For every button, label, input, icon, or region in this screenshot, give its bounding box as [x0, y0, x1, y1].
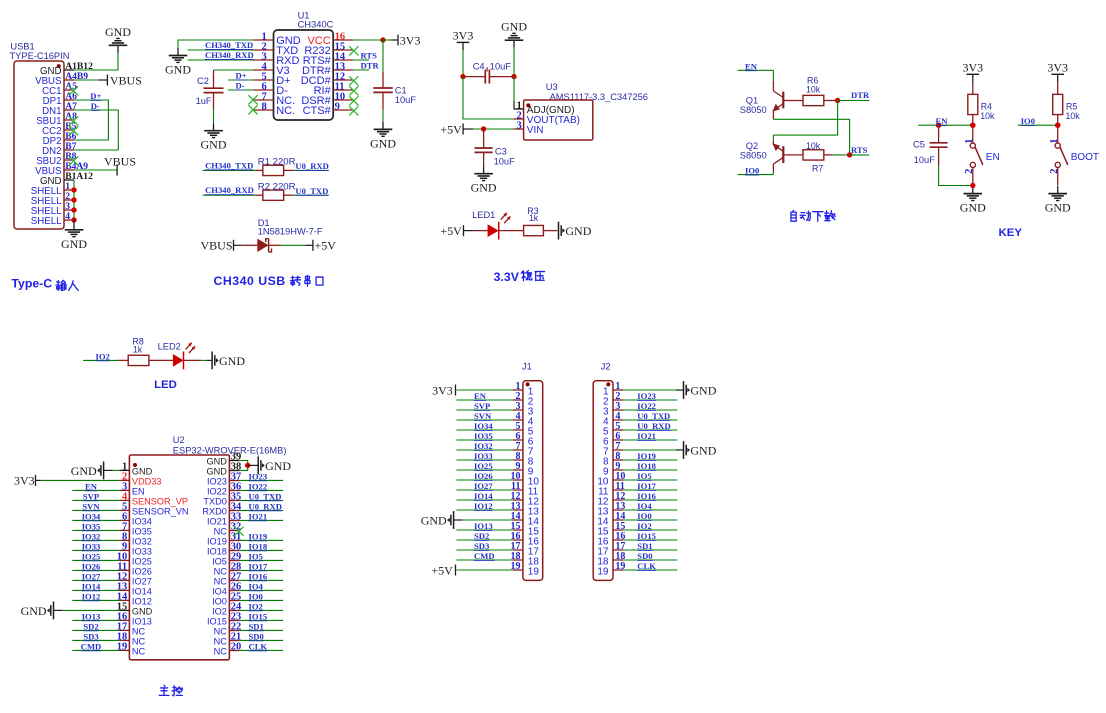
svg-text:USB1: USB1 — [10, 41, 34, 51]
svg-text:8: 8 — [261, 101, 266, 112]
svg-text:GND: GND — [421, 513, 447, 527]
svg-text:NC.: NC. — [276, 105, 295, 117]
svg-text:C2: C2 — [197, 76, 209, 86]
svg-text:C1: C1 — [395, 85, 407, 95]
svg-text:U0_RXD: U0_RXD — [249, 501, 282, 511]
svg-text:GND: GND — [132, 606, 153, 616]
svg-text:1: 1 — [964, 139, 975, 144]
svg-text:D+: D+ — [90, 91, 101, 101]
svg-text:IO33: IO33 — [474, 451, 493, 461]
svg-text:SVN: SVN — [474, 411, 492, 421]
svg-text:1k: 1k — [133, 344, 143, 354]
svg-text:GND: GND — [21, 604, 47, 618]
svg-text:R2 220R: R2 220R — [258, 182, 296, 193]
svg-text:9: 9 — [335, 101, 340, 112]
svg-text:IO19: IO19 — [637, 451, 656, 461]
svg-text:NC: NC — [132, 636, 146, 646]
svg-text:10uF: 10uF — [490, 61, 512, 71]
svg-text:VBUS: VBUS — [200, 239, 232, 253]
svg-text:LED: LED — [154, 379, 177, 391]
svg-text:GND: GND — [960, 201, 986, 215]
svg-text:CTS#: CTS# — [303, 105, 332, 117]
svg-text:CMD: CMD — [81, 641, 102, 651]
svg-text:Type-C: Type-C — [11, 276, 52, 290]
svg-text:U0_RXD: U0_RXD — [637, 421, 670, 431]
svg-text:NC: NC — [214, 646, 228, 656]
svg-text:D-: D- — [91, 101, 100, 111]
svg-text:TYPE-C16PIN: TYPE-C16PIN — [10, 51, 70, 61]
svg-text:TXD0: TXD0 — [203, 496, 227, 506]
svg-text:10k: 10k — [1066, 111, 1081, 121]
svg-text:GND: GND — [132, 466, 153, 476]
svg-text:GND: GND — [370, 136, 396, 150]
svg-text:ESP32-WROVER-E(16MB): ESP32-WROVER-E(16MB) — [173, 446, 287, 456]
svg-text:BOOT: BOOT — [1071, 152, 1099, 163]
svg-text:SENSOR_VP: SENSOR_VP — [132, 496, 188, 506]
svg-text:+5V: +5V — [440, 224, 462, 238]
svg-text:IO0: IO0 — [249, 591, 263, 601]
svg-text:3: 3 — [517, 120, 522, 131]
svg-text:GND: GND — [206, 456, 227, 466]
svg-text:IO27: IO27 — [132, 576, 152, 586]
svg-text:IO4: IO4 — [637, 501, 652, 511]
svg-text:U0_TXD: U0_TXD — [295, 186, 328, 196]
svg-text:19: 19 — [597, 567, 609, 578]
svg-text:1: 1 — [1049, 139, 1060, 144]
svg-text:DTR: DTR — [851, 90, 870, 100]
svg-text:RTS: RTS — [851, 145, 868, 155]
svg-text:SD0: SD0 — [637, 551, 652, 561]
svg-text:+5V: +5V — [431, 563, 453, 577]
svg-text:SD1: SD1 — [249, 621, 264, 631]
svg-text:IO14: IO14 — [82, 581, 101, 591]
svg-text:CH340_TXD: CH340_TXD — [205, 40, 253, 50]
svg-text:VBUS: VBUS — [104, 155, 136, 169]
svg-text:+5V: +5V — [315, 239, 337, 253]
svg-text:GND: GND — [105, 25, 131, 39]
svg-text:CH340 USB: CH340 USB — [214, 274, 286, 288]
svg-text:IO0: IO0 — [745, 166, 759, 176]
svg-text:CH340_TXD: CH340_TXD — [205, 160, 253, 170]
svg-text:IO0: IO0 — [1021, 116, 1035, 126]
svg-text:IO33: IO33 — [82, 541, 101, 551]
svg-text:U3: U3 — [546, 82, 558, 92]
svg-text:CH340_RXD: CH340_RXD — [205, 50, 254, 60]
svg-text:GND: GND — [471, 181, 497, 195]
svg-text:RTS: RTS — [361, 51, 378, 61]
svg-text:IO17: IO17 — [637, 481, 656, 491]
svg-text:1N5819HW-7-F: 1N5819HW-7-F — [258, 226, 323, 236]
svg-text:R7: R7 — [812, 164, 823, 174]
svg-text:IO26: IO26 — [474, 471, 493, 481]
svg-text:IO12: IO12 — [132, 596, 152, 606]
svg-text:IO32: IO32 — [132, 536, 152, 546]
svg-text:19: 19 — [528, 567, 540, 578]
svg-text:IO12: IO12 — [82, 591, 101, 601]
svg-text:CLK: CLK — [637, 561, 656, 571]
svg-text:C5: C5 — [913, 139, 925, 149]
svg-text:IO25: IO25 — [132, 556, 152, 566]
svg-text:SHELL: SHELL — [31, 216, 62, 227]
svg-text:GND: GND — [201, 138, 227, 152]
svg-text:IO26: IO26 — [82, 561, 101, 571]
svg-text:U0_TXD: U0_TXD — [637, 411, 670, 421]
svg-text:U0_TXD: U0_TXD — [249, 491, 282, 501]
svg-text:R1 220R: R1 220R — [258, 157, 296, 168]
svg-text:CH340C: CH340C — [298, 19, 334, 29]
svg-text:C3: C3 — [495, 146, 507, 156]
svg-text:CLK: CLK — [249, 641, 268, 651]
svg-text:GND: GND — [690, 383, 716, 397]
svg-text:SD2: SD2 — [474, 531, 489, 541]
svg-text:U2: U2 — [173, 435, 185, 445]
svg-text:NC: NC — [214, 576, 228, 586]
svg-text:NC: NC — [132, 646, 146, 656]
svg-text:3V3: 3V3 — [453, 28, 474, 42]
svg-text:U0_RXD: U0_RXD — [295, 161, 328, 171]
svg-text:IO13: IO13 — [82, 611, 101, 621]
svg-text:3V3: 3V3 — [14, 474, 35, 488]
svg-text:EN: EN — [745, 61, 758, 71]
svg-text:1k: 1k — [529, 213, 539, 223]
svg-text:EN: EN — [85, 481, 98, 491]
svg-text:NC: NC — [214, 566, 228, 576]
svg-text:IO2: IO2 — [212, 606, 227, 616]
svg-text:GND: GND — [501, 20, 527, 34]
svg-text:IO13: IO13 — [132, 616, 152, 626]
svg-text:S8050: S8050 — [740, 151, 767, 161]
svg-text:IO13: IO13 — [474, 521, 493, 531]
svg-text:IO25: IO25 — [474, 461, 493, 471]
svg-text:VBUS: VBUS — [110, 73, 142, 87]
svg-text:S8050: S8050 — [740, 105, 767, 115]
svg-text:RXD0: RXD0 — [202, 506, 227, 516]
svg-text:DTR: DTR — [361, 61, 380, 71]
svg-text:IO5: IO5 — [212, 556, 227, 566]
svg-text:+5V: +5V — [440, 122, 462, 136]
svg-text:IO16: IO16 — [249, 571, 268, 581]
svg-text:IO32: IO32 — [82, 531, 101, 541]
svg-text:2: 2 — [964, 169, 975, 174]
svg-text:IO34: IO34 — [132, 516, 152, 526]
svg-text:IO5: IO5 — [637, 471, 651, 481]
svg-text:IO22: IO22 — [249, 481, 268, 491]
svg-text:IO18: IO18 — [207, 546, 227, 556]
svg-text:IO21: IO21 — [637, 431, 656, 441]
svg-text:J2: J2 — [601, 362, 611, 372]
svg-text:10uF: 10uF — [914, 155, 936, 165]
svg-text:SD0: SD0 — [249, 631, 264, 641]
svg-text:IO12: IO12 — [474, 501, 493, 511]
svg-text:IO27: IO27 — [474, 481, 493, 491]
svg-text:IO23: IO23 — [637, 391, 656, 401]
svg-text:EN: EN — [986, 152, 1000, 163]
svg-text:IO22: IO22 — [637, 401, 656, 411]
svg-text:IO23: IO23 — [207, 476, 227, 486]
svg-text:D-: D- — [236, 81, 245, 91]
svg-text:IO34: IO34 — [474, 421, 493, 431]
svg-text:SVP: SVP — [474, 401, 490, 411]
svg-text:IO15: IO15 — [207, 616, 227, 626]
svg-text:CH340_RXD: CH340_RXD — [205, 185, 254, 195]
svg-text:IO19: IO19 — [207, 536, 227, 546]
svg-text:IO32: IO32 — [474, 441, 493, 451]
svg-text:IO18: IO18 — [637, 461, 656, 471]
svg-text:GND: GND — [1045, 201, 1071, 215]
svg-text:IO0: IO0 — [212, 596, 227, 606]
svg-text:IO15: IO15 — [637, 531, 656, 541]
svg-text:10uF: 10uF — [494, 157, 516, 167]
svg-text:GND: GND — [265, 459, 291, 473]
svg-text:3V3: 3V3 — [1047, 60, 1068, 74]
svg-text:VIN: VIN — [527, 125, 544, 136]
svg-text:IO14: IO14 — [474, 491, 493, 501]
svg-text:Q2: Q2 — [746, 141, 758, 151]
svg-text:D+: D+ — [236, 71, 247, 81]
svg-text:IO4: IO4 — [212, 586, 227, 596]
svg-text:IO25: IO25 — [82, 551, 101, 561]
svg-text:Q1: Q1 — [746, 95, 758, 105]
svg-text:J1: J1 — [522, 362, 532, 372]
svg-text:SVN: SVN — [82, 501, 100, 511]
svg-text:IO17: IO17 — [249, 561, 268, 571]
svg-text:3V3: 3V3 — [432, 383, 453, 397]
svg-text:GND: GND — [565, 224, 591, 238]
svg-text:10k: 10k — [806, 85, 821, 95]
svg-text:10k: 10k — [980, 111, 995, 121]
svg-text:3V3: 3V3 — [962, 60, 983, 74]
svg-text:IO33: IO33 — [132, 546, 152, 556]
svg-text:IO35: IO35 — [82, 521, 101, 531]
svg-text:CMD: CMD — [474, 551, 495, 561]
svg-text:IO18: IO18 — [249, 541, 268, 551]
svg-text:IO26: IO26 — [132, 566, 152, 576]
svg-text:SVP: SVP — [83, 491, 99, 501]
svg-text:IO2: IO2 — [637, 521, 651, 531]
svg-text:10k: 10k — [806, 141, 821, 151]
svg-text:IO23: IO23 — [249, 471, 268, 481]
svg-text:SD1: SD1 — [637, 541, 652, 551]
svg-text:NC: NC — [214, 626, 228, 636]
svg-text:SD3: SD3 — [83, 631, 98, 641]
svg-text:3V3: 3V3 — [400, 33, 421, 47]
svg-text:GND: GND — [690, 443, 716, 457]
svg-text:IO0: IO0 — [637, 511, 651, 521]
svg-text:SD2: SD2 — [83, 621, 98, 631]
svg-text:GND: GND — [71, 464, 97, 478]
svg-text:IO5: IO5 — [249, 551, 263, 561]
svg-text:IO22: IO22 — [207, 486, 227, 496]
svg-text:NC: NC — [214, 636, 228, 646]
svg-text:LED1: LED1 — [472, 210, 495, 220]
svg-text:C4: C4 — [473, 61, 485, 71]
svg-text:IO16: IO16 — [637, 491, 656, 501]
svg-text:IO4: IO4 — [249, 581, 264, 591]
svg-text:IO19: IO19 — [249, 531, 268, 541]
svg-text:KEY: KEY — [999, 227, 1023, 239]
svg-text:IO21: IO21 — [249, 511, 268, 521]
svg-text:IO35: IO35 — [474, 431, 493, 441]
svg-text:IO2: IO2 — [249, 601, 263, 611]
svg-text:EN: EN — [936, 116, 949, 126]
svg-text:IO14: IO14 — [132, 586, 152, 596]
svg-text:IO15: IO15 — [249, 611, 268, 621]
svg-text:3.3V: 3.3V — [494, 270, 520, 284]
svg-text:NC: NC — [214, 526, 228, 536]
svg-text:2: 2 — [1049, 169, 1060, 174]
svg-text:GND: GND — [206, 466, 227, 476]
svg-text:SD3: SD3 — [474, 541, 489, 551]
svg-text:IO2: IO2 — [96, 351, 110, 361]
svg-text:10uF: 10uF — [395, 95, 417, 105]
svg-text:1uF: 1uF — [196, 96, 212, 106]
svg-text:IO34: IO34 — [82, 511, 101, 521]
svg-text:VDD33: VDD33 — [132, 476, 162, 486]
svg-text:GND: GND — [165, 63, 191, 77]
svg-text:EN: EN — [132, 486, 145, 496]
svg-text:GND: GND — [61, 237, 87, 251]
svg-text:EN: EN — [474, 391, 487, 401]
svg-text:IO21: IO21 — [207, 516, 227, 526]
svg-text:SENSOR_VN: SENSOR_VN — [132, 506, 189, 516]
svg-text:IO35: IO35 — [132, 526, 152, 536]
svg-text:IO27: IO27 — [82, 571, 101, 581]
svg-text:LED2: LED2 — [158, 341, 181, 351]
svg-text:GND: GND — [219, 354, 245, 368]
svg-text:NC: NC — [132, 626, 146, 636]
